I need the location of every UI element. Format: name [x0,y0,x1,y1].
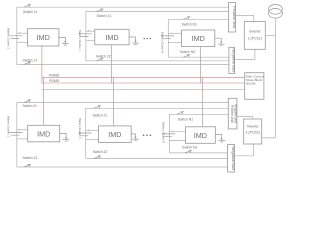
wire positive rail cluster 2 [86,11,229,13]
wire IMD U2b stub top [86,129,99,131]
svg-text:Inverter: Inverter [249,30,262,34]
wire inverter 2 to negative bus (bottom) [235,144,254,156]
battery B1 vertical wire [16,7,18,64]
ground G2 [129,37,139,45]
switch S11 [24,5,31,8]
IMD UNb box [185,127,215,144]
switch S12 [24,62,31,65]
svg-text:Switch 12: Switch 12 [23,58,38,62]
ground GNb [215,134,225,142]
wire IMD U2 stub top [86,30,95,32]
wire IMD U1 stub top [17,32,28,34]
svg-text:Negative Bus: Negative Bus [232,48,237,72]
svg-text:Battery Cluster 1: Battery Cluster 1 [7,28,11,49]
switch SN2b [185,150,192,153]
RS485 drop U2 top [111,45,113,83]
positive bus box (top) [228,3,235,32]
IMD U2 box [95,29,129,45]
svg-text:RS485: RS485 [49,74,59,78]
svg-text:IMD: IMD [108,130,121,139]
RS485 drop U1 top [41,46,43,83]
svg-text:Switch N1: Switch N1 [178,117,193,121]
svg-text:Switch 21: Switch 21 [97,14,112,18]
svg-text:Switch N2: Switch N2 [180,50,195,54]
svg-text:IMD: IMD [194,131,207,140]
svg-text:Battery Cluster N: Battery Cluster N [160,32,164,53]
svg-text:Positive Bus: Positive Bus [232,6,237,28]
RS485 drop U2 bottom [112,78,114,126]
wire positive rail cluster N (bottom) [169,113,228,115]
IMD UN box [182,30,215,47]
svg-text:Negative Bus: Negative Bus [231,146,236,170]
battery B1 plates [9,36,22,39]
battery B1b plates [9,132,22,135]
inverter U3 box [244,22,265,50]
wire positive rail cluster 1 [17,6,229,8]
svg-text:IMD: IMD [37,130,50,139]
svg-text:2 (PCS2): 2 (PCS2) [245,131,259,135]
battery BNb vertical wire [168,114,170,153]
ground G2b [131,134,139,141]
RS485 bus 2 wire [42,82,245,84]
wire IMD U1 stub bottom [17,41,28,43]
wire positive rail cluster 2 (bottom) [86,107,229,109]
comm wire to MCM [42,89,245,91]
svg-text:(MCM): (MCM) [246,82,255,86]
battery B2 vertical wire [85,12,87,61]
switch SN1b [177,112,184,115]
ground G1b [60,134,70,142]
switch S21b [94,106,101,109]
svg-text:Battery Cluster 2: Battery Cluster 2 [78,118,82,139]
wire IMD U2b stub bottom [86,139,99,141]
svg-text:1 (PCS1): 1 (PCS1) [248,36,262,40]
battery B1b vertical wire [16,103,18,168]
svg-text:Positive And: Positive And [230,105,234,123]
switch SN2 [183,55,190,58]
RS485 bus 1 wire [42,77,245,79]
wire IMD UNb stub top [169,130,185,132]
wire IMD UN stub top [168,32,181,34]
svg-text:Switch N2: Switch N2 [182,145,197,149]
RS485 drop UN top [200,47,202,84]
svg-text:Inverter: Inverter [247,124,260,128]
battery BNb plates [162,134,175,137]
wire negative rail cluster 2 (bottom) [86,158,228,160]
svg-text:IMD: IMD [105,33,118,42]
wire positive rail cluster N [168,18,228,20]
svg-text:Battery Cluster N: Battery Cluster N [162,122,166,143]
svg-text:Negative Bus: Negative Bus [234,104,238,123]
wire negative rail cluster N (bottom) [169,152,227,154]
wire negative rail cluster 2 [86,60,229,62]
ground G1 [59,37,69,45]
negative bus box (bottom) [228,145,235,173]
svg-text:Switch 22: Switch 22 [93,150,108,154]
svg-text:IMD: IMD [37,33,50,42]
wire IMD UNb stub bottom [169,139,185,141]
switch S22 [96,58,103,61]
svg-text:Switch 21: Switch 21 [93,114,108,118]
wire negative rail cluster 1 (bottom) [17,166,228,168]
MCM box [245,73,264,100]
svg-text:Switch 12: Switch 12 [23,156,38,160]
battery BN vertical wire [167,19,169,57]
switch S21 [96,9,103,12]
RS485 drop U1 bottom [43,78,45,126]
wire negative rail cluster 1 [17,64,229,66]
wire negative rail cluster N [168,56,229,58]
svg-text:Battery Cluster 1: Battery Cluster 1 [7,116,11,137]
battery B2 plates [78,34,91,37]
wire bus to inverter 2 [237,117,253,119]
wire IMD UN stub bottom [168,41,181,43]
switch S11b [24,100,31,103]
wire positive bus to inverter 1 [236,15,254,21]
svg-text:Battery Cluster 2: Battery Cluster 2 [78,30,82,51]
transformer T1 [268,4,282,18]
switch SN1 [183,17,190,20]
switch S22b [94,156,101,159]
svg-text:Switch 11: Switch 11 [23,10,38,14]
switch S12b [24,164,31,167]
ground GN [215,38,225,46]
wire positive rail cluster 1 (bottom) [17,102,229,104]
IMD U1b box [28,125,60,142]
wire transformer vertical drop [262,18,276,138]
RS485 drop UN bottom [201,78,203,127]
battery B2b plates [78,133,91,136]
svg-text:RS485: RS485 [49,79,59,83]
wire inverter 1 to transformer [265,35,275,37]
svg-text:IMD: IMD [192,34,205,43]
wire IMD U2 stub bottom [86,39,95,41]
IMD U1 box [28,29,59,46]
battery B2b vertical wire [85,108,87,158]
wire IMD U1b stub bottom [17,138,28,140]
svg-text:Switch 22: Switch 22 [96,55,111,59]
svg-text:Switch N1: Switch N1 [182,23,197,27]
positive-negative bus box (bottom) [228,98,237,129]
inverter U4 box [244,119,262,144]
ellipsis between cluster 2 and N (top) [143,38,151,40]
battery BN plates [161,36,174,39]
IMD U2b box [99,126,132,142]
wire negative bus to inverter 1 [235,49,255,59]
wire IMD U1b stub top [17,129,28,131]
svg-text:Switch 11: Switch 11 [23,104,38,108]
negative bus box (top) [229,47,235,73]
ellipsis between cluster 2 and N (bottom) [143,134,151,136]
